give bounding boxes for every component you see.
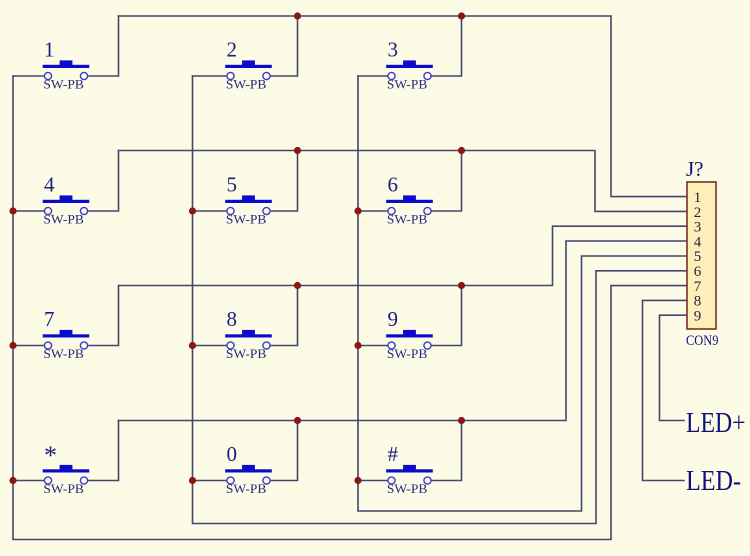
wire: J? pin 9 to LED+ [660, 315, 688, 420]
pushbutton switch 3 [386, 60, 433, 79]
junction: row1 bus / column 3 stub [458, 12, 465, 19]
svg-text:6: 6 [388, 173, 399, 197]
svg-text:SW-PB: SW-PB [226, 346, 267, 361]
junction: column1 / switch 4 [9, 207, 16, 214]
svg-text:SW-PB: SW-PB [387, 211, 428, 226]
junction: column2 / switch 0 [189, 477, 196, 484]
svg-text:CON9: CON9 [686, 333, 719, 349]
junction: column3 / switch # [354, 477, 361, 484]
svg-text:4: 4 [694, 234, 702, 250]
wire: switch 9 right contact stub to row3 bus [428, 286, 462, 346]
junction: row3 bus / column 8 stub [294, 282, 301, 289]
wire: column3 to switch # left contact [358, 480, 392, 482]
pushbutton switch # [386, 465, 433, 484]
svg-text:1: 1 [694, 190, 702, 206]
pushbutton switch 6 [386, 195, 433, 214]
svg-text:#: # [388, 442, 399, 466]
wire: switch 2 right contact stub to row1 bus [267, 16, 298, 76]
svg-text:6: 6 [694, 264, 702, 280]
svg-text:LED-: LED- [686, 466, 741, 497]
wire: switch 8 right contact stub to row3 bus [267, 286, 298, 346]
svg-text:7: 7 [694, 279, 702, 295]
svg-text:J?: J? [686, 157, 704, 181]
pushbutton switch 5 [225, 195, 272, 214]
wire: switch 6 right contact stub to row2 bus [428, 151, 462, 212]
svg-text:8: 8 [694, 294, 702, 310]
pushbutton switch 7 [43, 330, 90, 349]
wire: switch 4 right contact stub to row2 bus [84, 151, 119, 212]
svg-text:3: 3 [388, 38, 399, 62]
svg-text:4: 4 [44, 173, 55, 197]
wire: column2 to switch 5 left contact [193, 210, 231, 212]
junction: column2 / switch 5 [189, 207, 196, 214]
junction: row4 bus / column # stub [458, 417, 465, 424]
junction: row4 bus / column 0 stub [294, 417, 301, 424]
junction: row1 bus / column 2 stub [294, 12, 301, 19]
svg-text:5: 5 [694, 249, 702, 265]
svg-text:5: 5 [227, 173, 238, 197]
wire: column2 to switch 8 left contact [193, 345, 231, 347]
svg-text:LED+: LED+ [686, 408, 746, 439]
junction: column1 / switch * [9, 477, 16, 484]
wire: column1 to switch 1 left contact [13, 75, 48, 77]
wire: switch 3 right contact stub to row1 bus [428, 16, 462, 76]
wire: column1 to switch 7 left contact [13, 345, 48, 347]
junction: row3 bus / column 9 stub [458, 282, 465, 289]
svg-text:SW-PB: SW-PB [387, 346, 428, 361]
wire: column3 to switch 9 left contact [358, 345, 392, 347]
pushbutton switch 4 [43, 195, 90, 214]
svg-text:SW-PB: SW-PB [226, 211, 267, 226]
svg-text:9: 9 [388, 307, 399, 331]
junction: column2 / switch 8 [189, 342, 196, 349]
junction: column1 / switch 7 [9, 342, 16, 349]
wire: column2 vertical to J? pin 6 [193, 76, 688, 524]
wire: switch 7 right contact stub to row3 bus [84, 286, 119, 346]
connector J? body [687, 182, 716, 329]
svg-text:SW-PB: SW-PB [43, 211, 84, 226]
svg-text:9: 9 [694, 308, 702, 324]
pushbutton switch 2 [225, 60, 272, 79]
pushbutton switch 9 [386, 330, 433, 349]
wire: column3 vertical to J? pin 5 [358, 76, 687, 511]
wire: switch 1 right contact stub to row1 bus [84, 16, 119, 76]
wire: row2 bus to J? pin 2 [119, 151, 688, 212]
svg-text:SW-PB: SW-PB [387, 76, 428, 91]
svg-text:SW-PB: SW-PB [43, 481, 84, 496]
svg-text:8: 8 [227, 307, 238, 331]
wire: column2 to switch 2 left contact [193, 75, 231, 77]
wire: column3 to switch 6 left contact [358, 210, 392, 212]
svg-text:SW-PB: SW-PB [43, 76, 84, 91]
junction: column3 / switch 9 [354, 342, 361, 349]
pushbutton switch 1 [43, 60, 90, 79]
wire: column1 to switch 4 left contact [13, 210, 48, 212]
svg-text:2: 2 [694, 205, 702, 221]
wire: switch 0 right contact stub to row4 bus [267, 421, 298, 481]
svg-text:SW-PB: SW-PB [43, 346, 84, 361]
wire: column2 to switch 0 left contact [193, 480, 231, 482]
wire: switch # right contact stub to row4 bus [428, 421, 462, 481]
junction: row2 bus / column 5 stub [294, 147, 301, 154]
junction: column3 / switch 6 [354, 207, 361, 214]
svg-text:0: 0 [227, 442, 238, 466]
pushbutton switch * [43, 465, 90, 484]
svg-text:SW-PB: SW-PB [226, 76, 267, 91]
pushbutton switch 0 [225, 465, 272, 484]
svg-text:SW-PB: SW-PB [387, 481, 428, 496]
svg-text:1: 1 [44, 38, 55, 62]
wire: switch 5 right contact stub to row2 bus [267, 151, 298, 212]
junction: row2 bus / column 6 stub [458, 147, 465, 154]
wire: column1 vertical to J? pin 7 [13, 76, 687, 540]
wire: switch * right contact stub to row4 bus [84, 421, 119, 481]
svg-text:SW-PB: SW-PB [226, 481, 267, 496]
wire: column1 to switch * left contact [13, 480, 48, 482]
wire: row4 bus to J? pin 4 [119, 241, 688, 421]
wire: column3 to switch 3 left contact [358, 75, 392, 77]
svg-text:*: * [44, 441, 57, 470]
svg-text:7: 7 [44, 307, 55, 331]
pushbutton switch 8 [225, 330, 272, 349]
wire: row1 bus to J? pin 1 [119, 16, 688, 197]
svg-text:2: 2 [227, 38, 238, 62]
wire: J? pin 8 to LED- [643, 300, 688, 480]
svg-text:3: 3 [694, 220, 702, 236]
wire: row3 bus to J? pin 3 [119, 226, 688, 285]
